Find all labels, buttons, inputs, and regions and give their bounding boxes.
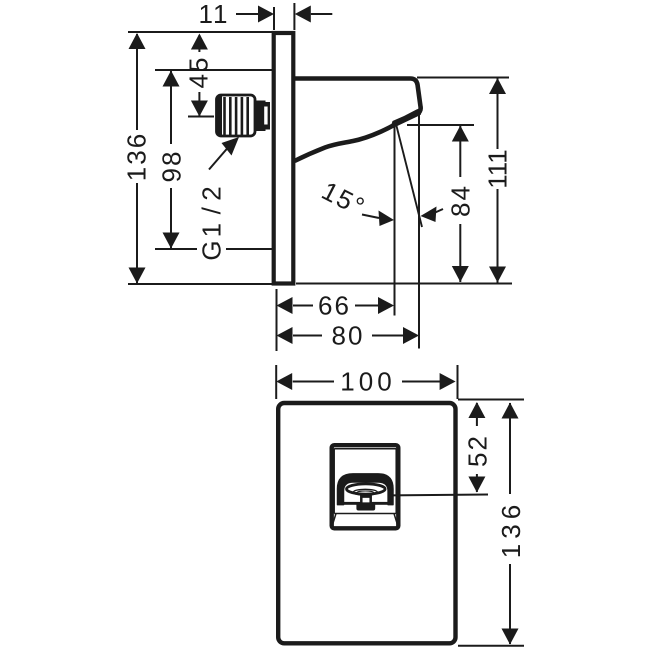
dimension 100 arrow left [276,373,292,390]
dimension 136b line upper segment [509,403,511,494]
spout mouth arch band [338,474,394,505]
dimension 100 line right segment [402,381,441,383]
dimension 45 line lower segment [198,92,200,116]
aerator middle ellipse [353,489,377,495]
15 degree slanted stream line [396,124,422,227]
dimension 111 arrow up [489,78,506,94]
dimension 80 line left segment [293,335,322,337]
15 degree leader arrow (pointing right) [379,211,395,227]
dimension 136 arrow down [129,268,146,284]
bottom reference line left y=284 [128,283,272,285]
threaded nipple block [256,101,266,132]
spout nose vertical line [418,113,420,349]
svg-text:52: 52 [463,434,493,467]
G 1/2 leader line [209,148,228,170]
svg-text:G1/2: G1/2 [197,184,227,260]
dimension 52 arrow down [468,477,485,493]
dimension 136 line upper segment [136,34,138,130]
dimension 136b label [496,500,526,558]
svg-text:136: 136 [122,132,152,181]
dimension 52 line upper segment [476,403,478,426]
reference tick y=249 segment right [226,248,272,250]
dimension 84 arrow down [452,266,469,282]
dimension 45 arrow down [191,101,208,117]
nipple collar white slit [264,107,267,125]
bottom reference line right y=283.5 [296,283,512,285]
dimension 84 line lower segment [459,224,461,282]
extension line left of front plate [275,365,277,399]
svg-text:11: 11 [199,0,230,29]
dimension 45 arrow up [191,34,208,50]
15 degree leader line [362,215,379,219]
dimension 136 arrow up [129,33,146,49]
dimension 80 arrow right [403,327,419,344]
dimension 98 line lower segment [170,188,172,248]
svg-text:80: 80 [332,321,365,351]
dimension 11 leader line right [311,13,333,15]
niche back wall left line [333,449,335,514]
extension line below plate x=276.5 [276,289,278,351]
aerator leader line to dim 52 [391,494,488,497]
knob knurl stripe 3 [235,97,238,135]
reference line y=399.5 for dims 52 and 136 [458,399,524,401]
svg-text:66: 66 [318,291,351,321]
svg-text:111: 111 [483,149,513,189]
wall plate (side view) [274,33,294,284]
dimension 11 arrow right (pointing left) [295,6,311,23]
dimension 80 arrow left [277,327,293,344]
dimension 84 arrow up [452,126,469,142]
dimension 84 line upper segment [459,126,461,177]
dimension 45 tick [188,116,214,118]
aerator inner ellipse [357,491,374,494]
bottom black tab [356,502,375,510]
svg-text:84: 84 [446,184,476,217]
dimension 66 arrow left [277,297,293,314]
dimension 100 label [340,367,395,397]
niche back wall top line [334,448,396,450]
svg-text:98: 98 [157,150,187,183]
G 1/2 label [197,184,227,260]
15 degree label [317,175,371,222]
niche back wall right line [395,449,397,514]
dimension 100 arrow right [440,373,456,390]
water stream vertical line [394,124,396,316]
dimension 98 arrow down [163,233,180,249]
dimension 11 arrow left (pointing right) [258,6,274,23]
reference line y=77.5 for dim 111 [417,77,509,79]
dimension 136b line lower segment [509,564,511,644]
dimension 66 line left segment [293,305,313,307]
diverter tab white rect [361,497,370,505]
knob knurl stripe 2 [229,97,232,135]
knob knurl stripe 5 [246,97,249,135]
dimension 11 leader line left [236,13,259,15]
arrow pointing left at stream line [421,207,437,223]
dimension 111 label [483,149,513,189]
dimension 136 label [122,132,152,181]
dimension 100 line left segment [293,381,334,383]
dimension 45 line upper segment [198,35,200,52]
dimension 98 label [157,150,187,183]
dimension 111 arrow down [489,267,506,283]
top reference line y=32 [128,31,272,33]
dimension 136 line lower segment [136,183,138,283]
svg-text:100: 100 [340,367,395,397]
reference line y=125 for dim 84 [407,124,474,126]
dimension 52 label [463,434,493,467]
knob knurl stripe 4 [241,97,244,135]
knob left cap fill [217,96,223,136]
nipple collar frame [266,102,271,130]
spout outlet wedge [391,108,423,128]
knob knurled cap G1/2 connector [217,95,256,136]
dimension 80 line right segment [372,335,403,337]
extension line right of wall plate top [293,3,295,30]
extension line right of front plate [457,365,459,399]
knob knurl stripe 1 [223,97,226,135]
dimension 84 label [446,184,476,217]
arrow tail at stream line [434,209,443,213]
dimension 111 line lower segment [497,189,499,283]
front plate (front view) [278,403,455,643]
reference line y=70 for dim 98 [155,69,272,71]
niche bottom-right diagonal [394,514,399,529]
spout body outline (side view) [294,79,421,162]
dimension 66 line right segment [355,305,378,307]
niche bottom line [334,513,396,515]
bottom reference line for 136b [458,645,524,647]
dimension 11 label [199,0,230,29]
dimension 98 arrow up [163,71,180,87]
dimension 136b arrow down [502,629,519,645]
reference tick y=249 segment left [155,248,197,250]
dimension 98 line upper segment [170,71,172,144]
spout mouth bottom bar [338,502,393,505]
svg-text:45: 45 [184,56,214,89]
dimension 66 arrow right [378,297,394,314]
dimension 136b arrow up [502,403,519,419]
extension line left of wall plate top [273,7,275,30]
aerator outer ring [347,484,386,494]
spout niche outer rectangle (front view) [332,445,399,528]
dimension 66 label [318,291,351,321]
dimension 45 label [184,56,214,89]
svg-text:136: 136 [496,500,526,558]
niche bottom-left diagonal [332,514,337,529]
G 1/2 leader arrow [222,137,240,156]
dimension 52 arrow up [468,402,485,418]
dimension 80 label [332,321,365,351]
dimension 52 line lower segment [476,474,478,492]
dimension 111 line upper segment [497,79,499,150]
